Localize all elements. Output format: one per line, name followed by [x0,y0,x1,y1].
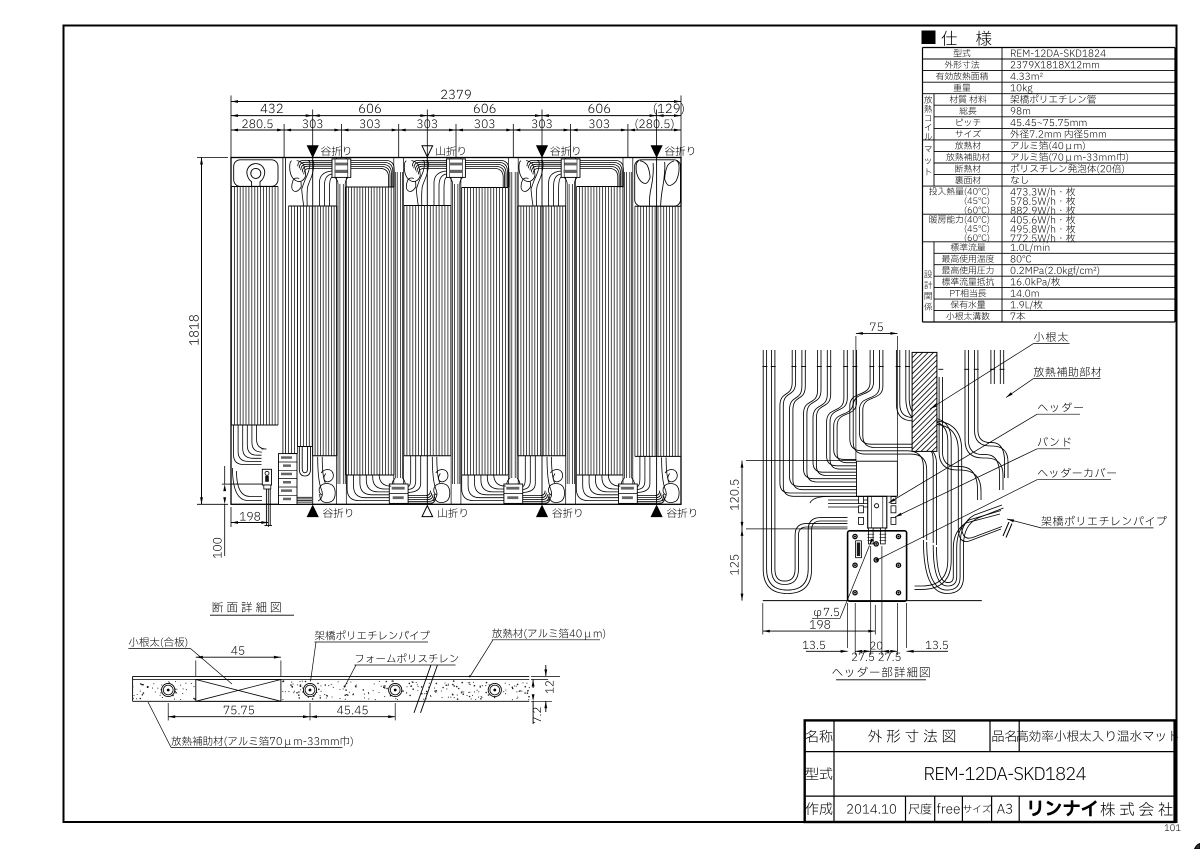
section1 bottom elbow curves [234,425,262,465]
bottom small dims 13.5 27.5 20 27.5 13.5 [847,603,849,648]
title block frame [805,720,1175,822]
dim 75.75 and 45.45 [167,703,169,720]
pipe stripe band [298,205,313,207]
label pex pipe [1041,516,1166,526]
spec table group labels [924,96,932,104]
section1 top capsule outline [234,160,278,187]
M mark label [856,541,862,558]
top junction box [447,159,466,178]
section8 top capsule outline [635,160,681,206]
elbow curves right of bottom box [408,456,416,490]
elbow curves right of bottom box [637,456,645,490]
crease line at 280.5 [282,158,284,505]
fan curves left of bottom box [462,475,504,500]
bundle curves right of top box [580,160,623,187]
elbow curves left of top box [324,174,332,206]
fan curves left of bottom box [576,475,618,500]
pipe stripe band [346,186,394,188]
top junction box [332,159,351,178]
bottom S-blob right of fold [434,483,450,502]
connection pipe stub [265,489,267,526]
header cover [848,531,907,601]
dimension row 280.5/303x6/(280.5) [231,129,681,131]
title block texts [806,730,833,743]
dim 120.5 and 125 [741,461,743,601]
top junction box [561,159,580,178]
cover bolts [853,534,857,538]
dimension row 432/606/606/606/(129) [231,115,681,117]
U-slot curves right of label boxes [299,447,310,477]
band clamps [859,497,864,504]
75 dim extension lines [855,336,857,461]
fold marks bottom [307,506,318,517]
pipe stripe band [518,205,565,207]
left pipes risers into header block [807,524,809,532]
dimension 1818 (overall height) [201,158,203,505]
sheet number 101 [1165,824,1181,831]
pipe stripe band [577,186,623,188]
fold line 1 [312,158,314,505]
right side S-curves to cover [923,508,1003,594]
bundle lines right of bottom box [523,498,550,503]
mat bottom-left notch line (100mm) [231,483,264,485]
label pex pipe section [315,630,430,640]
mat header fitting [262,469,271,485]
bundle lines left of top box [412,160,446,166]
pipe break mark [1003,522,1012,538]
spec table row texts [954,49,971,57]
pipe channel above bottom box [393,158,395,504]
bundle lines left of top box [298,160,332,166]
dim 45 [195,661,197,677]
label boxes column [279,454,298,505]
corner mark [1195,844,1200,850]
label joist plywood [129,637,187,647]
elbow curves left of top box [554,174,562,206]
pipe stripe band [635,205,681,207]
dimension 198 (pipe exit) [231,522,268,524]
top S-blob at fold [531,161,539,206]
bundle lines right of bottom box [637,498,664,503]
phi 7.5 label [814,608,839,618]
elbow curves left of top box [439,174,447,206]
mat outline [231,158,681,505]
label header [1038,402,1083,412]
label header cover [1038,468,1116,478]
label radiator aux foil [171,736,352,747]
pipes right of joist [939,377,981,500]
dimension 75 [856,332,898,334]
pipe stripe band [312,205,336,207]
section title [213,602,281,613]
upper header rect [857,461,898,496]
spec table header [922,31,935,44]
pipes descending with nested bends [763,350,847,594]
pipes in section [162,683,175,696]
elbow curves right of bottom box [523,456,531,490]
label foam polystyrene [356,653,458,663]
label radiator aux [1034,367,1102,377]
bottom junction box [389,484,408,503]
bundle curves right of top box [351,160,394,187]
top S-blob at fold [416,161,424,206]
bottom junction box [619,484,638,503]
bundle curves right of top box [465,160,508,187]
dim 198 header [762,603,764,635]
title header detail [832,667,929,678]
bottom S-blob right of fold [319,483,335,502]
bundle lines right of bottom box [408,498,435,503]
section1 keyhole pipe loop [247,164,265,187]
label radiator foil [492,628,605,639]
pipe stripe band [404,205,451,207]
spec table grid [923,47,1176,49]
dim 7.2 right [531,679,548,681]
top S-blob at fold [302,161,310,206]
bundle lines under section2 [297,496,312,498]
fold line 2 [426,158,428,505]
bottom junction box [504,484,523,503]
ground line [763,600,982,602]
dim 12 right [531,675,560,677]
pipe channel below top box [450,158,452,504]
break lines [414,665,431,713]
pipe stripe band [232,186,279,188]
fold line 4 [656,158,658,505]
pipe channel above bottom box [507,158,509,504]
pipe end caps [762,366,767,368]
pipe fittings below block [868,528,873,544]
foam stipple [386,681,388,683]
pipe stripe band [289,205,298,207]
bottom S-blob right of fold [663,483,679,502]
pipe stripe band [462,187,509,189]
fan curves left of bottom box [347,475,389,500]
pipe channel below top box [336,158,338,504]
bottom S-blob right of fold [548,483,564,502]
section strip outline [133,675,530,677]
header block [868,496,887,528]
bundle lines left of top box [527,160,561,166]
joist rect with X [196,680,281,702]
dimension 2379 (overall width) [231,101,681,103]
fold marks top (valley/mountain) [307,146,318,157]
section8 double loop [636,161,650,184]
fold line 3 [541,158,543,505]
label konedata [1034,332,1068,342]
pipe channel above bottom box [622,158,624,504]
dimension 100 (notch height) [224,466,226,484]
pipe channel below top box [565,158,567,504]
label band [1038,437,1071,447]
